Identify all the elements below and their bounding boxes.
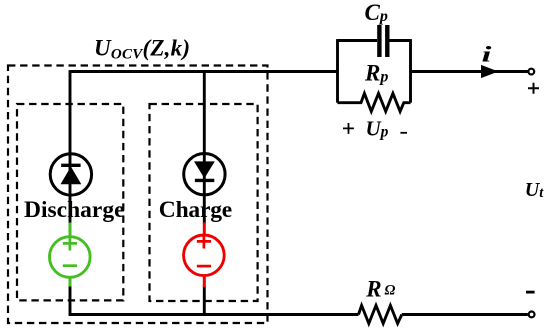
terminal node - (bottom right) xyxy=(529,312,535,318)
svg-text:Discharge: Discharge xyxy=(24,197,125,223)
voltage source V1 (discharge, green) xyxy=(50,223,91,287)
svg-text:Ut: Ut xyxy=(525,179,544,201)
wire charge branch upper xyxy=(203,72,206,224)
terminal node + (top right) xyxy=(528,69,534,75)
label plus terminal xyxy=(528,83,539,94)
svg-text:Cp: Cp xyxy=(365,0,388,25)
wire RC box left edge xyxy=(336,39,339,103)
wire bottom rail right xyxy=(402,313,528,316)
resistor Rp xyxy=(338,93,411,111)
svg-text:Rp: Rp xyxy=(364,61,388,86)
wire top rail (OCV box to RC network) xyxy=(70,70,338,73)
label minus of Up xyxy=(400,132,407,134)
label plus of Up xyxy=(343,123,354,134)
diode D2 (charge) xyxy=(184,154,225,196)
resistor R ohm xyxy=(359,305,402,323)
wire charge branch lower xyxy=(203,286,206,315)
svg-text:UOCV(Z,k): UOCV(Z,k) xyxy=(94,36,190,63)
voltage source V2 (charge, red) xyxy=(184,223,225,288)
label minus terminal xyxy=(526,291,535,294)
svg-text:Charge: Charge xyxy=(159,197,232,223)
inner dashed box (Charge branch) xyxy=(150,104,258,301)
wire discharge branch lower xyxy=(69,285,72,315)
capacitor Cp xyxy=(338,25,411,57)
svg-text:Up: Up xyxy=(366,117,389,141)
diode D1 (discharge) xyxy=(50,154,91,195)
current arrow i xyxy=(482,66,497,78)
wire discharge branch upper xyxy=(69,70,72,223)
wire bottom rail left xyxy=(69,313,359,316)
wire RC box right edge xyxy=(409,39,412,103)
svg-text:R Ω: R Ω xyxy=(365,277,395,302)
wire top rail (RC network to + terminal) xyxy=(411,70,528,73)
svg-text:i: i xyxy=(482,43,493,67)
inner dashed box (Discharge branch) xyxy=(17,104,123,300)
outer dashed box (OCV network) xyxy=(8,66,268,324)
